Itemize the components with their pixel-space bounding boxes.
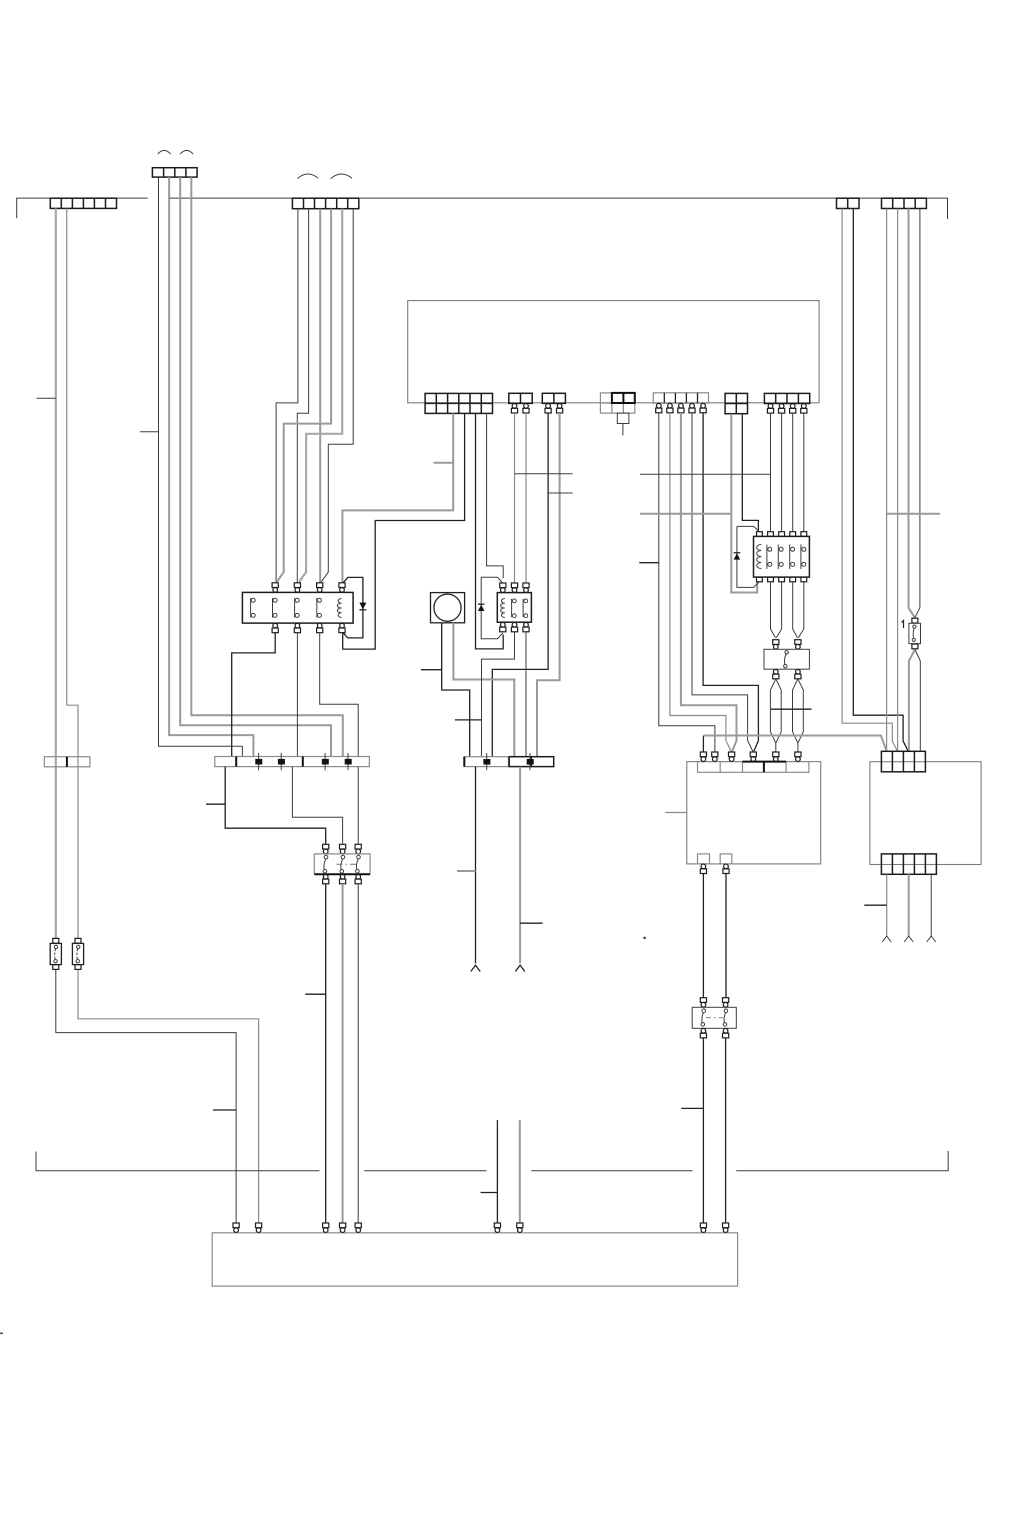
wire bottom rail mid-right: [531, 1170, 692, 1172]
pin R3 top 4: [790, 532, 796, 537]
pin SW2 top 2: [340, 844, 346, 853]
wire ground mid 1: [496, 1120, 498, 1223]
wire E3 lower (fuse F1 to box BR cell3): [909, 650, 915, 752]
bus JB1 clamp 3: [322, 753, 329, 770]
wire F4 (U1 wrap to relay R1 coil bottom): [343, 413, 465, 649]
bus JB1 divider 1: [235, 757, 237, 767]
wire BR out1: [886, 874, 888, 935]
pin SW1 top right: [795, 640, 801, 649]
wire A2 (feed through fuse F-L2): [67, 208, 78, 938]
pin R3 bottom 3: [779, 577, 785, 582]
pin J1: [656, 403, 662, 412]
relay R3 coil: [757, 545, 762, 569]
pin SW3 bottom 2: [723, 1028, 729, 1037]
connector B 4-cell (raised): [152, 168, 197, 177]
pin ground bus 6: [494, 1223, 500, 1232]
fuse F-L1 bottom pin: [53, 965, 59, 970]
wire D2 to box BR cell3: [853, 209, 908, 752]
connector H 2-cell under U1: [542, 393, 565, 403]
ground bus bar: [212, 1233, 737, 1286]
wire R2 pin3 to bus JB3: [525, 632, 527, 757]
tick t13: [887, 513, 941, 515]
pin SW2 bottom 2: [340, 874, 346, 883]
wire gray rail BL to BR: [703, 736, 886, 752]
switch SW2 lever 1: [323, 855, 328, 873]
switch SW2 lever 3: [356, 855, 361, 873]
pin R3 bottom 1: [757, 577, 763, 582]
tick t17 feed to R3 coil: [640, 513, 731, 515]
wire C5 to relay R1 pin2 (paired): [299, 209, 342, 582]
pin BL top 3: [729, 752, 735, 761]
wire C4 to relay R1 pin1 (paired): [277, 209, 331, 582]
relay R3 contact 3: [790, 545, 795, 569]
tick t19: [771, 708, 812, 710]
fuse F1 lever: [912, 625, 916, 642]
fuse F-L2 lever: [76, 945, 80, 963]
switch SW2 box bottom edge: [314, 873, 370, 875]
wire E1 to box BR cell1: [886, 209, 888, 752]
pin G1: [511, 404, 517, 413]
wire D1 to box BR cell2: [842, 209, 897, 752]
pin ground bus 2: [256, 1223, 262, 1232]
pin BL top 5: [773, 752, 779, 761]
wire A2 lower (fuse F-L2 to ground bus): [78, 969, 259, 1223]
tick t2: [140, 431, 159, 433]
switch SW2 lever 2: [340, 855, 345, 873]
box BR body: [870, 762, 981, 865]
tick t4: [305, 993, 325, 995]
wire C3 to relay R1 pin3: [319, 209, 321, 583]
tick t10: [481, 1192, 498, 1194]
relay R1 coil: [337, 599, 341, 618]
pin R3 top 1: [757, 532, 763, 537]
pin SW1 top left: [773, 640, 779, 649]
wire J5 (to box BL pin4 pair-right): [703, 413, 758, 752]
motor M body: [431, 593, 465, 623]
tick t3: [206, 803, 225, 805]
junction bus JB3: [509, 757, 554, 767]
wire R3 pin2/3 converge: [771, 582, 782, 638]
pin L4: [801, 404, 807, 413]
pin H2: [557, 404, 563, 413]
junction bus JB1: [215, 757, 370, 767]
tick t14: [515, 473, 573, 475]
wire J2 (to box BL pin3 pair-left): [670, 413, 731, 752]
pin ground bus 1: [233, 1223, 239, 1232]
pin SW3 top 2: [723, 998, 729, 1007]
wire G1 (to relay R2 pin2): [514, 413, 516, 583]
diode D1 symbol: [359, 603, 366, 610]
fuse F-L1 lever: [54, 945, 58, 963]
wire A1 (battery feed left, through fuse F-L1): [55, 208, 57, 938]
pin J5: [700, 403, 706, 412]
connector C 6-cell top-middle: [292, 198, 358, 209]
pin ground bus 4: [340, 1223, 346, 1232]
fuse F1 top pin: [912, 618, 918, 623]
wire L1 (to relay R3 pin2): [770, 413, 772, 532]
pin R2 top 2: [511, 583, 517, 592]
box BL strip bold top edge: [743, 761, 787, 763]
wire C6 to relay R1 pin3 (paired): [321, 209, 353, 582]
fuse F-L1 body: [50, 943, 61, 964]
wire R3 pin4/5 converge: [793, 582, 804, 638]
connector F 6x2 grid under U1: [425, 393, 492, 413]
connector E 4-cell top-right: [882, 198, 927, 208]
pin R3 top 2: [768, 532, 774, 537]
wire F6 (U1 to relay R2 pin1 top): [487, 413, 504, 578]
wire H2 (to bus JB3): [537, 413, 560, 757]
tick t1: [37, 397, 56, 399]
junction bus JBL left: [44, 757, 90, 767]
connector L 4-cell under U1: [764, 393, 809, 403]
wire ground mid 2: [519, 1120, 521, 1223]
pin R1 bottom 4: [339, 623, 345, 632]
wire E2 to box BR cell2: [897, 209, 899, 752]
diode D2 bracket: [481, 577, 503, 638]
pin R2 bottom 3: [523, 622, 529, 631]
pin SW2 bottom 3: [355, 874, 361, 883]
box BL bottom tab 2: [720, 854, 732, 864]
tick t15: [548, 492, 573, 494]
wire BR out3: [930, 874, 932, 935]
relay R1 contact 1: [251, 598, 256, 618]
pin SW2 top 3: [355, 844, 361, 853]
wire R1 pin1 to bus JB1: [232, 632, 276, 756]
pin G2: [523, 404, 529, 413]
pin ground bus 8: [700, 1223, 706, 1232]
wire B4 to junction bus JB1: [191, 177, 342, 756]
wire B1 to junction bus JB1: [159, 177, 243, 756]
wire bottom rail right: [736, 1151, 948, 1171]
fuse F-L2 top pin: [75, 938, 81, 943]
pin R3 bottom 5: [801, 577, 807, 582]
main control unit box U1: [408, 301, 819, 403]
pin L1: [767, 404, 773, 413]
chevron BR out2: [904, 936, 913, 942]
pin R1 bottom 2: [294, 623, 300, 632]
connector G 2-cell under U1: [509, 393, 532, 403]
connector D 2-cell top-right: [837, 198, 860, 208]
pin R1 bottom 3: [317, 623, 323, 632]
pin R3 bottom 4: [790, 577, 796, 582]
pin R2 bottom 2: [511, 622, 517, 631]
relay R1 contact 2: [273, 598, 278, 618]
relay R3 body: [754, 536, 810, 577]
wire C1 to relay R1 pin1: [276, 209, 298, 583]
relay R1 contact 3: [295, 598, 300, 618]
bus JB1 divider 2: [302, 757, 304, 767]
fuse F-L2 body: [72, 943, 83, 964]
wire BL bottom1 to switch SW3: [702, 874, 704, 998]
wire JB2 output down: [475, 767, 477, 964]
tick t8: [457, 870, 476, 872]
pin BL bottom 1: [700, 864, 706, 873]
box BL top strip: [698, 762, 809, 773]
wire SW2-3 to ground bus: [357, 884, 359, 1223]
wire B2 to junction bus JB1: [169, 177, 253, 756]
speck artifact left margin: [0, 1333, 3, 1335]
pin BL top 4: [750, 752, 756, 761]
pin ground bus 5: [355, 1223, 361, 1232]
wire R1 pin2 to bus JB1: [296, 632, 298, 756]
switch SW1 box: [764, 649, 809, 669]
chevron JB3 wire end: [515, 965, 524, 971]
motor M circle: [434, 594, 461, 621]
box BR bottom connector: [881, 854, 936, 874]
pin R1 top 3: [317, 583, 323, 592]
wire K1 (to relay R3 pin1 bottom wrap): [731, 414, 757, 593]
connector I bold divider: [622, 393, 624, 403]
wire G2 (to relay R2 pin3): [525, 413, 527, 583]
pin R2 top 1: [500, 583, 506, 592]
switch SW3 lever 2: [723, 1009, 728, 1026]
tick t5: [213, 1109, 236, 1111]
wire B3 to junction bus JB1: [180, 177, 331, 756]
wire BL pin1 rail riser: [702, 736, 704, 752]
bus JBL divider: [66, 757, 68, 767]
fuse F1 body: [909, 623, 921, 643]
wire JB1 segA to switch SW2-1: [225, 767, 326, 844]
box BL strip bold divider: [763, 762, 765, 773]
wire J3 (to box BL pin3 pair-right): [681, 413, 737, 752]
connector I bold cells: [612, 393, 635, 403]
label F1 "1": [902, 621, 904, 629]
relay R2 coil: [501, 599, 505, 618]
tick t18: [639, 562, 659, 564]
pin R3 top 3: [779, 532, 785, 537]
relay R2 body: [497, 593, 531, 623]
wire A1 lower (fuse F-L1 to ground bus): [56, 969, 236, 1223]
tick t16 feed to R3 pin2: [640, 473, 771, 475]
relay R1 contact 4: [317, 598, 322, 618]
fuse F-L1 top pin: [53, 938, 59, 943]
switch SW2 box: [314, 854, 370, 874]
fuse F1 bottom pin: [912, 644, 918, 649]
relay R2 contact 1: [512, 599, 517, 618]
pin SW2 top 1: [323, 844, 329, 853]
relay R2 contact 2: [523, 599, 528, 618]
relay R3 contact 1: [767, 545, 772, 569]
wire L4 (to relay R3 pin5): [803, 413, 805, 532]
relay R3 contact 4: [801, 545, 806, 569]
switch SW3 box: [692, 1007, 736, 1028]
arc marker above connector B left: [158, 150, 171, 154]
pin BL top 6: [795, 752, 801, 761]
bus JB3 clamp: [527, 753, 534, 770]
chevron JB2 wire end: [471, 965, 480, 971]
wire J4 (to box BL pin4 pair-left): [692, 413, 753, 752]
speck artifact mid: [644, 937, 646, 939]
pin SW1 bottom right: [795, 669, 801, 678]
tick t21: [665, 812, 687, 814]
pin BL top 2: [712, 752, 718, 761]
connector I central grid under U1: [600, 393, 634, 413]
wire K2 (to relay R3 pin1 top): [742, 414, 758, 532]
switch SW3 lever 1: [701, 1009, 706, 1026]
wire R2 pin2 to bus JB2: [482, 632, 515, 757]
box BL bottom tab 1: [698, 854, 710, 864]
pin R3 top 5: [801, 532, 807, 537]
pin R1 top 2: [294, 583, 300, 592]
wire I stub: [622, 424, 624, 436]
tick t20: [434, 462, 454, 464]
wire L2 (to relay R3 pin3): [781, 413, 783, 532]
connector K 2x2 grid under U1: [725, 393, 747, 413]
fuse F-L2 bottom pin: [75, 965, 81, 970]
pin R1 top 4: [339, 583, 345, 592]
wire M1 (motor to bus JB2): [442, 623, 470, 757]
pin L3: [790, 404, 796, 413]
tick t9: [520, 922, 543, 924]
wire H1 (to bus JB2): [492, 413, 548, 757]
wire pair SW1-right to box BL pin6: [793, 679, 804, 752]
pin ground bus 3: [323, 1223, 329, 1232]
pin H1: [545, 404, 551, 413]
wire bottom rail mid-left: [364, 1170, 486, 1172]
bus JB2 clamp: [483, 753, 490, 770]
wire E4 lower (fuse F1 to box BR cell4): [915, 650, 920, 752]
box BL body: [687, 762, 821, 864]
connector I sub-square: [617, 413, 629, 423]
wire JB1 segB to switch SW2-2: [292, 767, 342, 844]
bus JB1 clamp 4: [345, 753, 352, 770]
pin SW3 top 1: [700, 998, 706, 1007]
pin J2: [667, 403, 673, 412]
wire R1 pin3 to bus JB1: [320, 632, 359, 756]
relay R3 contact 2: [778, 545, 783, 569]
wire M2 (motor to bus JB3): [453, 623, 514, 757]
wire F5 (U1 to relay R2 pin1 bottom): [476, 413, 504, 649]
arc marker above connector C right: [331, 174, 352, 179]
arc marker above connector C left: [297, 174, 318, 179]
switch SW1 lever: [784, 651, 789, 668]
wire JB1 segC to switch SW2-3: [357, 767, 359, 844]
pin BL bottom 2: [723, 864, 729, 873]
tick t11: [681, 1107, 703, 1109]
relay R1 body: [242, 592, 353, 623]
pin BL top 1: [700, 752, 706, 761]
pin R1 top 1: [272, 583, 278, 592]
pin R3 bottom 2: [768, 577, 774, 582]
tick t12: [864, 904, 886, 906]
junction bus JB2: [464, 757, 508, 767]
pin R1 bottom 1: [272, 623, 278, 632]
wire JB3 output down: [519, 767, 521, 964]
wire bottom rail left: [36, 1152, 320, 1171]
bus JB1 clamp 2: [278, 753, 285, 770]
pin ground bus 7: [517, 1223, 523, 1232]
wire SW2-1 to ground bus: [325, 884, 327, 1223]
pin ground bus 9: [723, 1223, 729, 1232]
connector J 5-cell under U1: [653, 393, 708, 403]
wire pair SW1-left to box BL pin5: [770, 679, 781, 752]
pin J3: [678, 403, 684, 412]
wire SW3-2 to ground bus: [725, 1038, 727, 1223]
diode D2 symbol: [478, 605, 485, 611]
wire E4 upper (to fuse F1): [915, 209, 920, 618]
pin SW2 bottom 1: [323, 874, 329, 883]
pin L2: [779, 404, 785, 413]
diode D1 bracket: [343, 577, 363, 638]
wire L3 (to relay R3 pin4): [792, 413, 794, 532]
chevron BR out1: [882, 936, 891, 942]
diode D3 symbol: [734, 553, 741, 559]
chevron BR out3: [927, 936, 936, 942]
pin R2 top 3: [523, 583, 529, 592]
bus JB1 clamp 1: [255, 753, 262, 770]
tick t6: [421, 669, 442, 671]
wire BL bottom2 to switch SW3: [725, 874, 727, 998]
wire BR out2: [908, 874, 910, 935]
tick t7: [455, 719, 482, 721]
pin SW3 bottom 1: [700, 1028, 706, 1037]
connector J/A 6-cell top-left: [50, 198, 116, 208]
box BR top connector: [881, 751, 925, 772]
wire F3 (U1 to relay R1 coil top): [342, 413, 453, 583]
switch SW3 dash-dot link: [706, 1017, 723, 1019]
arc marker above connector B right: [180, 150, 193, 154]
switch SW2 dash-dot link: [337, 863, 359, 865]
wire SW2-2 to ground bus: [342, 884, 344, 1223]
wire C2 to relay R1 pin2: [297, 209, 308, 583]
wire top rail left segment: [17, 198, 148, 218]
diode D3 bracket: [737, 526, 760, 587]
pin SW1 bottom left: [773, 669, 779, 678]
pin J4: [689, 403, 695, 412]
pin R2 bottom 1: [500, 622, 506, 631]
wire J1 (to box BL pin2): [659, 413, 715, 752]
wire top rail main segment: [170, 198, 948, 219]
wire E3 upper (to fuse F1): [909, 209, 915, 618]
wire SW3-1 to ground bus: [702, 1038, 704, 1223]
